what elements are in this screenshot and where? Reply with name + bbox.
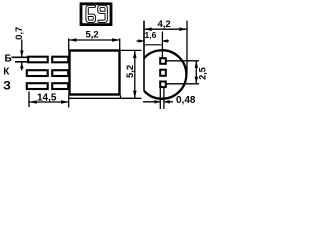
digit 6 outlined: [87, 6, 94, 21]
svg-text:З: З: [3, 78, 11, 92]
dimension 14,5 lead length (bottom): [29, 92, 69, 108]
svg-text:Б: Б: [5, 53, 12, 64]
flat side / extension line for 4,2 and 1,6: [143, 21, 145, 91]
pin square 3: [160, 82, 166, 88]
transistor body side view: [70, 51, 120, 95]
dimension 5,2 body height (right of body): [69, 50, 142, 98]
svg-text:К: К: [3, 66, 10, 77]
dimension 1,6 (flat to pin center): [137, 30, 170, 45]
lead З (pin 3, broken): [27, 83, 68, 89]
center line of pins: [161, 32, 163, 58]
transistor can top view (circle with flat): [144, 50, 186, 99]
svg-text:2,5: 2,5: [197, 67, 207, 80]
dimension 2,5 (pin span, right): [167, 61, 208, 84]
dimension 4,2 (top of can): [144, 19, 187, 75]
svg-text:0,48: 0,48: [176, 95, 196, 106]
type code box 69: [81, 4, 111, 25]
svg-text:5,2: 5,2: [125, 65, 136, 78]
svg-text:4,2: 4,2: [158, 19, 171, 30]
lead Б (pin 1, broken): [12, 57, 69, 63]
pin square 2: [160, 70, 166, 76]
svg-text:1,6: 1,6: [145, 30, 157, 40]
digit 9 outlined: [99, 6, 106, 21]
dimension 0,48 (pin width, bottom): [143, 88, 196, 110]
dimension 5,2 body width (top): [69, 29, 120, 50]
svg-text:0,7: 0,7: [14, 27, 25, 40]
svg-text:14,5: 14,5: [37, 92, 57, 103]
lead К (pin 2, broken): [27, 70, 68, 76]
dimension 0,7 lead thickness: [14, 27, 25, 71]
pin square 1: [160, 58, 166, 64]
svg-text:5,2: 5,2: [86, 29, 99, 40]
